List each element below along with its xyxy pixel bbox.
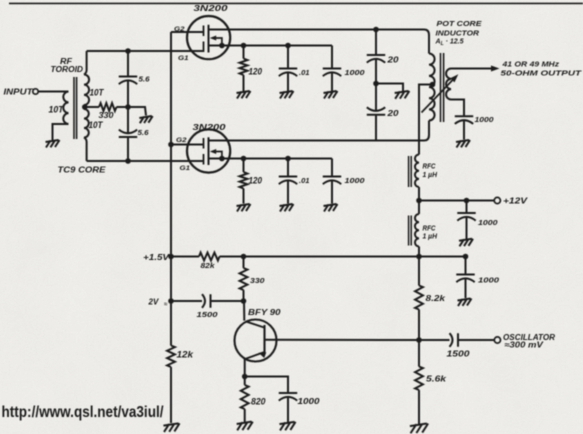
resistor 330 (center-tap) [99, 103, 117, 111]
capacitor 20 lower [367, 107, 385, 114]
Q1 gate2 bar [203, 26, 205, 37]
wire Q1 drain rail [209, 29, 424, 31]
wire R5.6k to ground [418, 390, 420, 424]
wire Q3 emitter lead [244, 359, 246, 377]
node 2V bus junction [168, 298, 174, 304]
wire collector node to R5.6k [418, 340, 420, 367]
node T1 center tap [82, 104, 88, 110]
node 330 top junction [241, 254, 247, 260]
wire mid node to C 5.6 lower [127, 107, 129, 133]
node Q2 substrate-source tie [219, 156, 225, 162]
wire to C1000 lower [331, 159, 333, 177]
wire R820 to ground [244, 409, 246, 422]
wire center tap to RFC1 [419, 85, 433, 155]
wire collector node to C1500 [419, 339, 450, 341]
transformer T2 core [440, 53, 442, 122]
capacitor 5.6 lower [119, 130, 137, 137]
capacitor 1000 lower [323, 177, 341, 185]
capacitor 1500 oscillator [450, 333, 459, 347]
wire to C1000 12V [466, 201, 468, 214]
node T2 primary center tap [430, 82, 436, 88]
node R120 lower junction [241, 156, 247, 162]
capacitor 1000 at +12V [457, 213, 475, 221]
wire Q2 drain rail [209, 140, 424, 142]
resistor 82k [199, 253, 220, 261]
wire +1.5V rail left [171, 256, 199, 258]
ground R820 [237, 422, 253, 431]
transformer T1 primary winding 10T [63, 92, 68, 124]
wire to R120 upper [243, 46, 245, 59]
ground C1000 rail [458, 299, 472, 307]
ground C.01 lower [280, 204, 294, 212]
node RFC2 rail junction [416, 254, 422, 260]
ground C20 midpoint [395, 91, 410, 99]
ground center-tap [139, 116, 152, 123]
wire G1 rail top (node to upper FET gate1) [87, 50, 204, 52]
wire C.01 lower to ground [287, 182, 289, 204]
wire 330 to ground [117, 107, 147, 116]
node bus to Q2 G2 [168, 142, 174, 148]
node bottom rail junction [125, 158, 131, 164]
ground bias bus bottom [163, 423, 179, 432]
resistor 820 [241, 385, 249, 409]
inductor RFC1 winding [415, 155, 419, 187]
wire midpoint to ground [376, 84, 403, 92]
node emitter junction [242, 374, 248, 380]
wire T2 secondary bottom [451, 100, 464, 117]
node C.01 lower junction [285, 156, 291, 162]
node C1000 12V junction [464, 198, 470, 204]
wire +1.5V rail right [220, 256, 466, 258]
capacitor .01 upper [279, 69, 297, 77]
wire to C1000 upper [331, 46, 333, 69]
node collector junction [416, 337, 422, 343]
wire Q2 source rail [209, 158, 333, 160]
transformer T1 secondary upper 10T [84, 75, 89, 106]
wire R8.2k to collector node [418, 310, 420, 341]
capacitor 1000 at rail [456, 275, 474, 283]
ground C1000 upper [324, 91, 338, 99]
transistor Q2 3N200 body [187, 129, 230, 172]
transformer T1 core [73, 77, 75, 139]
resistor 120 lower [240, 172, 248, 189]
wire Q1 source rail [209, 45, 333, 47]
wire T2 secondary top to output [451, 68, 492, 70]
resistor 330 bias [240, 268, 248, 290]
capacitor 1000 output [455, 116, 473, 124]
ground R120 upper [237, 91, 251, 99]
terminal oscillator [494, 337, 500, 343]
wire T2 primary top lead [422, 30, 429, 54]
wire C1500 to base node [211, 300, 244, 302]
Q1 substrate arrow [210, 36, 216, 41]
node C20 midpoint [373, 81, 379, 87]
wire C1000 12V to ground [466, 218, 468, 239]
wire 330 bias to base node [243, 290, 245, 301]
wire Q3 collector line [265, 339, 420, 341]
Q2 substrate arrow [210, 149, 216, 154]
wire midpoint to C20 lower [375, 84, 377, 111]
Q1 channel bar [208, 25, 210, 53]
wire Q2 G2 lead [171, 144, 204, 146]
transformer T2 primary winding [429, 54, 435, 121]
wire rail to R8.2k [418, 257, 420, 286]
wire R120 upper to ground [243, 75, 245, 91]
wire to C1000 rail [465, 257, 467, 275]
ground C.01 upper [280, 91, 294, 99]
input terminal [33, 89, 38, 94]
wire to R120 lower [243, 159, 245, 173]
inductor RFC1 core [408, 156, 410, 187]
output arrowhead [491, 66, 500, 72]
node Q1 substrate-source tie [219, 43, 225, 49]
wire C1000 emitter to ground [287, 398, 289, 422]
wire T2 primary bottom lead [422, 121, 429, 141]
inductor RFC2 winding [415, 214, 419, 246]
capacitor 1000 upper [323, 69, 341, 77]
wire emitter to R820 [244, 377, 246, 386]
wire 12V node to RFC2 [418, 201, 420, 215]
node C.01 upper junction [285, 43, 291, 49]
wire T1 secondary top to G1 rail [84, 51, 87, 75]
wire C20 upper to midpoint [375, 60, 377, 83]
wire R120 lower to ground [243, 189, 245, 204]
capacitor 5.6 upper [119, 77, 137, 85]
wire C1000 rail to ground [465, 280, 467, 298]
resistor 12k [167, 346, 175, 368]
ground C1000 output [456, 140, 470, 148]
ground C1000 lower [324, 204, 338, 212]
resistor 120 upper [240, 59, 248, 76]
terminal +12V [494, 197, 500, 203]
ground R5.6k [410, 424, 428, 434]
wire G1 rail bottom (node to lower FET gate1) [87, 160, 204, 162]
ground T1 primary [46, 140, 60, 148]
capacitor 20 upper [367, 55, 385, 63]
wire RFC1 to +12V node [418, 187, 420, 201]
node cap 5.6 top junction [125, 48, 131, 54]
wire T1 primary bottom to ground [53, 124, 69, 140]
Q3 emitter diagonal [246, 352, 265, 359]
wire input to T1 primary [39, 91, 69, 93]
node drain rail / C20 junction [373, 27, 379, 33]
wire to C20 upper [375, 30, 377, 56]
wire C.01 upper to ground [287, 74, 289, 91]
transistor Q3 BFY90 body [235, 320, 277, 362]
Q2 gate2 bar [203, 138, 205, 149]
ground C1000 12V [459, 239, 473, 247]
wire C5.6 lower to bottom rail [127, 137, 129, 161]
node +1.5V bus junction [168, 254, 174, 260]
inductor RFC2 core [408, 216, 410, 246]
Q2 channel bar [208, 137, 210, 165]
wire emitter to C1000 bypass [245, 377, 288, 394]
node caps midpoint [125, 104, 131, 110]
wire C5.6 upper to mid node [127, 82, 129, 107]
wire base lead [243, 301, 245, 321]
wire C1000 lower to ground [331, 182, 333, 204]
Q2 gate1 bar [203, 154, 205, 165]
capacitor 1000 emitter [279, 393, 297, 401]
wire 330 bias top [243, 257, 245, 269]
node C1000 rail junction [463, 254, 469, 260]
T2 tuning arrow [422, 78, 456, 113]
wire 2V node to C1500 [171, 300, 202, 302]
Q1 gate1 bar [203, 42, 205, 53]
transistor Q1 3N200 body [187, 16, 230, 59]
wire to C.01 lower [287, 159, 289, 177]
wire C1000 output to ground [463, 122, 465, 140]
wire C1000 upper to ground [331, 74, 333, 91]
wire C1500 to oscillator terminal [458, 339, 494, 341]
transformer T2 secondary winding [446, 69, 451, 100]
wire G2 bias bus lower [170, 367, 172, 423]
wire C20 lower to lower drain rail [375, 115, 377, 141]
wire Q1 G2 lead [171, 31, 204, 33]
ground R120 lower [237, 204, 251, 212]
capacitor .01 lower [279, 177, 297, 185]
node +12V junction [416, 198, 422, 204]
node base junction [241, 298, 247, 304]
wire to C.01 upper [287, 46, 289, 69]
node R120 upper junction [241, 43, 247, 49]
border top rule [9, 2, 583, 4]
resistor 8.2k [415, 286, 423, 310]
wire RFC2 to +1.5V rail [418, 247, 420, 257]
wire center tap to R 330 [85, 106, 99, 108]
Q3 base diagonal [246, 321, 265, 327]
Q3 base bar [263, 325, 265, 354]
resistor 5.6k [415, 367, 423, 391]
wire to C 5.6 top [127, 51, 129, 77]
capacitor 1500 feedback [202, 294, 211, 308]
wire +12V feed [419, 200, 494, 202]
transformer T1 secondary lower 10T [84, 109, 89, 138]
wire G2 bias bus upper [170, 32, 172, 346]
ground C1000 emitter [279, 422, 295, 431]
wire T1 secondary bottom [84, 138, 87, 162]
